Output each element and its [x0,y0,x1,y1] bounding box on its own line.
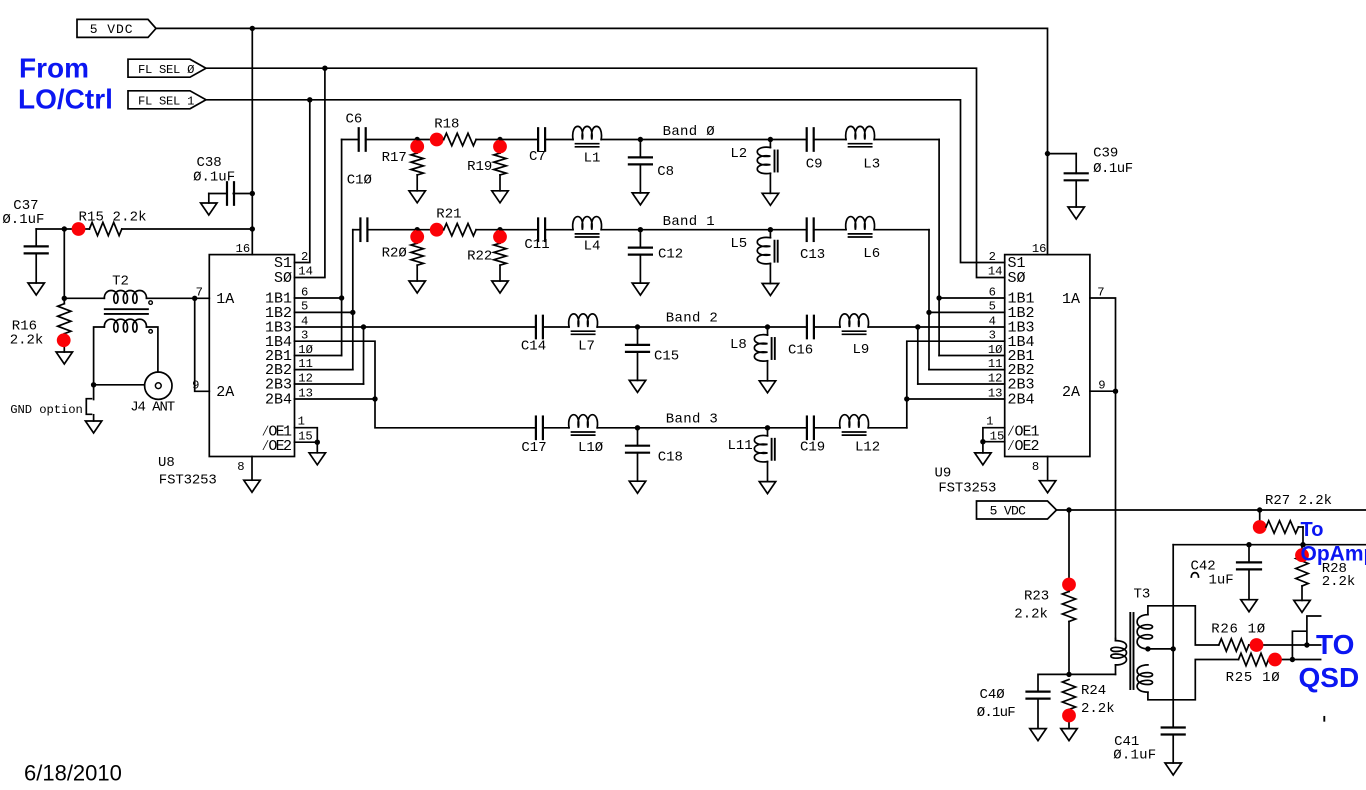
wire band3 left run [535,427,537,429]
capacitor C18 [626,428,649,481]
svg-text:SØ: SØ [274,270,292,287]
test point R28 top [1295,548,1309,562]
wire C6 to R17 [366,139,418,141]
wire C14 to L7 [543,326,569,328]
ground C42 [1241,600,1257,612]
label U8 FST3253 [159,472,217,488]
svg-text:1A: 1A [216,291,234,308]
svg-text:9: 9 [192,379,199,393]
ground L2 [762,193,778,205]
svg-text:2B4: 2B4 [1008,392,1035,409]
svg-text:1uF: 1uF [1209,573,1234,589]
svg-text:C16: C16 [788,343,813,359]
wire opamp row [1173,544,1366,546]
svg-text:14: 14 [988,265,1003,279]
label C6 [346,112,363,128]
wire R26 to QSD [1249,644,1321,646]
svg-text:R19: R19 [467,159,492,175]
svg-text:2.2k: 2.2k [1081,701,1115,717]
svg-text:Ø.1uF: Ø.1uF [2,212,44,228]
wire junction to L5 [640,229,770,231]
wire U8 OE1/OE2 gnd [295,428,318,443]
wire gnd option upper [93,385,95,400]
svg-text:L12: L12 [855,440,880,456]
U9 left pin numbers [986,250,1004,444]
junction R15/T2 branch [62,226,67,231]
wire T2 secondary right to J4 [147,327,158,372]
ground C8 [632,193,648,205]
net flag FL SEL 0 [128,59,206,77]
capacitor C11 [538,218,545,241]
label TO QSD [1299,629,1360,693]
wire U9 tie B0 vertical [938,140,940,356]
svg-text:C1Ø: C1Ø [347,173,372,189]
junction C15 tap [635,324,640,329]
resistor R26 10 [1211,621,1265,651]
label date [24,761,122,786]
wire C37 to R15 [36,228,89,230]
wire L7 to junction [597,326,637,328]
svg-text:L5: L5 [730,236,747,252]
label U8 [158,455,175,471]
wire T2 primary to U8 1A [147,297,210,299]
wire T2 secondary left down [94,327,105,385]
resistor R15 2.2k [79,210,147,236]
junction C39 tap [1045,151,1050,156]
transformer T3 primary winding [1111,639,1127,675]
U9 right pin numbers [1032,242,1106,474]
wire L3 to U9 [874,139,939,141]
svg-text:16: 16 [236,242,251,256]
wire U8 1B2-2B2 tie [295,311,353,313]
junction T3 center tap [1145,646,1150,651]
capacitor C14 [536,316,543,339]
capacitor C16 [807,316,814,339]
svg-text:Ø.1uF: Ø.1uF [1113,747,1156,763]
capacitor C42 [1191,545,1262,600]
wire C13 to L6 [814,229,846,231]
wire R17 to R18 [417,139,444,141]
ground GND option [85,421,101,433]
label Band 2 [666,311,718,327]
label T2 [112,274,129,290]
svg-text:FL SEL Ø: FL SEL Ø [138,63,194,77]
wire L11 to C19 [768,427,807,429]
svg-text:QSD: QSD [1299,662,1360,693]
wire U9 1B2-2B2 tie [929,311,1005,313]
svg-text:U8: U8 [158,455,175,471]
svg-text:From: From [19,53,89,84]
wire C16 to L9 [814,326,840,328]
junction L8 tap [765,324,770,329]
svg-text:Band Ø: Band Ø [663,124,715,140]
test point R25 right [1268,653,1282,667]
junction U8 band0 feed [339,295,344,300]
capacitor C7 [538,128,545,151]
wire 5VDC top rail [156,28,1048,254]
IC U9 body [1005,255,1090,457]
svg-text:Ø.1uF: Ø.1uF [1093,161,1133,177]
wire C9 to L3 [814,139,846,141]
wire R20 to R21 [417,229,444,231]
svg-text:L11: L11 [728,438,753,454]
ground U8 OE [309,453,325,465]
ground C12 [632,283,648,295]
svg-text:1A: 1A [1062,291,1080,308]
svg-text:C12: C12 [658,247,683,263]
wire U8 pin16 [251,229,253,255]
svg-text:Band 2: Band 2 [666,311,718,327]
wire R21 to R22 [476,229,500,231]
wire U8 band3 down [375,399,536,428]
svg-text:L3: L3 [863,156,880,172]
svg-text:C13: C13 [800,247,825,263]
net flag FL SEL 1 [128,91,206,109]
ground C39 [1068,207,1084,219]
label To OpAmp [1301,519,1366,566]
test point R20 [410,230,424,244]
svg-text:L2: L2 [730,146,747,162]
U8 right pin numbers [298,250,313,444]
junction U9 band2 in [915,324,920,329]
svg-text:Band 3: Band 3 [666,412,718,428]
power flag 5 VDC (bottom) [977,501,1057,519]
svg-text:T2: T2 [112,274,129,290]
svg-text:C7: C7 [529,149,546,165]
wire L1 to junction [601,139,640,141]
transformer T3 core [1130,613,1133,689]
ground U9 pin8 [1039,481,1055,493]
junction antenna / gnd option [91,382,96,387]
junction U9 band1 in [926,310,931,315]
svg-text:2A: 2A [1062,384,1080,401]
svg-text:8: 8 [237,460,244,474]
resistor R16 2.2k [10,298,71,352]
wire U9 tie B2 vertical [917,327,919,384]
wire branch down to T2 [63,229,65,298]
svg-text:L6: L6 [863,246,880,262]
inductor L2 [757,140,777,194]
wire 1A to 2A loop [195,298,210,391]
svg-text:15: 15 [298,429,313,443]
junction C8 tap [638,137,643,142]
wire U9 OE stub [982,442,984,453]
wire 5VDC branch down to U8 [251,28,253,229]
wire C10 to R20 [367,229,417,231]
wire down to R23 [1068,510,1070,592]
wire R15 to U8 pin16 rail [122,228,253,230]
wire U9 OE1/OE2 gnd [983,428,1005,442]
wire U8 pin8 [251,457,253,481]
svg-text:L8: L8 [730,337,747,353]
svg-text:∕OE2: ∕OE2 [261,438,292,455]
wire junction to C40 [1038,674,1069,691]
svg-text:C8: C8 [657,164,674,180]
wire C19 to L12 [814,427,840,429]
labels band0 components [382,117,881,181]
U8 pin names [216,255,292,455]
svg-text:OpAmp: OpAmp [1301,542,1366,565]
svg-text:J4 ANT: J4 ANT [130,399,175,415]
label T3 [1134,586,1151,602]
test point R19 [493,140,507,154]
resistor R17 [411,140,423,191]
svg-text:FL SEL 1: FL SEL 1 [138,95,194,109]
test point R23 top [1062,578,1076,592]
wire junction to T3 primary [1069,673,1116,675]
wire U9 tie B1 vertical [928,230,930,370]
wire U8 1B4 stub [295,341,376,399]
svg-text:T3: T3 [1134,586,1151,602]
wire R27 left lead [1259,510,1261,527]
junction R27 tap [1257,507,1262,512]
junction L2 tap [768,137,773,142]
labels band1 components [382,207,881,265]
wire FL SEL 1 net [206,100,1005,263]
svg-text:L1Ø: L1Ø [578,440,603,456]
wire C6 left [342,139,359,141]
resistor R25 10 [1226,653,1280,686]
inductor L3 [846,126,875,146]
test point R27 left [1253,520,1267,534]
junction C18 tap [635,425,640,430]
svg-text:2A: 2A [216,384,234,401]
svg-text:Ø.1uF: Ø.1uF [193,170,235,186]
capacitor C37 [2,198,47,283]
capacitor C41 [1113,728,1185,764]
wire L8 to C16 [768,326,807,328]
resistor R27 2.2k [1265,493,1332,545]
junction R19 tap [497,137,502,142]
svg-text:1: 1 [986,415,993,429]
capacitor C40 [977,687,1050,729]
wire T2 primary left [64,297,104,299]
svg-text:2.2k: 2.2k [10,333,44,349]
svg-text:14: 14 [298,265,313,279]
test point R21 left [430,223,444,237]
ground R20 [409,281,425,293]
wire L4 to junction [601,229,640,231]
inductor L11 [754,428,774,482]
junction C12 tap [638,227,643,232]
capacitor C6 [359,128,366,151]
junction C38 tap [250,191,255,196]
svg-text:C15: C15 [654,349,679,365]
wire L10 to junction [597,427,637,429]
junction U8 band1 feed [350,310,355,315]
wire U9 1B3-2B3 tie [918,326,1005,328]
svg-text:R22: R22 [467,249,492,265]
U8 left pin numbers [192,242,250,474]
wire U9 2A stub [1090,390,1116,392]
junction FL SEL 1 to U8 S1 [307,97,312,102]
label From LO/Ctrl [18,53,113,115]
svg-text:2: 2 [989,250,996,264]
wire FL SEL 0 to U8 pin14 [295,68,325,277]
resistor R21 [444,224,476,236]
junction R17 tap [415,137,420,142]
wire gnd option lower [93,415,95,421]
inductor L5 [757,230,777,284]
svg-text:1: 1 [298,415,305,429]
wire FL SEL 0 net [206,68,1005,277]
ground U8 pin8 [244,480,260,492]
wire QSD I stub [1307,616,1321,645]
svg-text:Ø.1uF: Ø.1uF [977,705,1016,721]
wire C38 to 5VDC rail [233,193,252,195]
svg-text:L1: L1 [584,150,601,166]
svg-text:C14: C14 [521,339,546,355]
stray mark [1323,717,1325,721]
wire QSD Q stub [1292,631,1306,659]
wire C10 left [353,229,361,231]
wire T3 sec top out [1148,606,1219,645]
wire FL SEL 1 to U8 pin2 [295,100,310,263]
ground C41 [1165,763,1181,775]
svg-text:C11: C11 [524,237,549,253]
wire C17 to L10 [543,427,569,429]
junction QSD I [1304,642,1309,647]
wire R19 to C7 [500,139,538,141]
capacitor C15 [626,327,649,380]
ground R19 [492,191,508,203]
junction T2 primary / R16 [62,296,67,301]
junction U9 band0 in [936,295,941,300]
capacitor C10 [360,218,367,241]
wire U8 2B1 stub [295,355,342,357]
inductor L6 [846,217,875,237]
wire U8 OE stub [316,442,318,453]
ground U9 OE [975,453,991,465]
ground R28 [1294,600,1310,612]
svg-text:2.2k: 2.2k [1322,574,1356,590]
wire junction to L8 [638,326,768,328]
test point R24 bottom [1062,709,1076,723]
wire L9 to U9 [868,326,918,328]
transformer T2 primary winding [104,291,152,305]
svg-text:L4: L4 [584,239,601,255]
test point R16 bottom [57,333,71,347]
svg-text:L7: L7 [578,339,595,355]
wire U9 2B3 stub [918,383,1005,385]
svg-text:R24: R24 [1081,683,1106,699]
wire 2A down to T3 [1115,391,1117,638]
ground C18 [629,481,645,493]
wire U9 1B1-2B1 tie [939,297,1005,299]
junction C42 tap [1246,542,1251,547]
resistor R19 [494,140,506,191]
svg-text:TO: TO [1316,629,1354,660]
gnd option jumper bracket [10,399,91,418]
junction R23/R24/C40/T3 [1066,672,1071,677]
resistor R23 2.2k [1014,589,1075,675]
ground L8 [759,381,775,393]
ground R16 [56,352,72,364]
junction U9 OE gnd [980,439,985,444]
test point R26 right [1250,638,1264,652]
svg-text:C18: C18 [658,449,683,465]
IC U8 body [209,255,294,457]
ground R17 [409,191,425,203]
wire T3 sec bottom out [1148,660,1239,700]
wire U9 pin8 [1047,457,1049,481]
svg-text:2.2k: 2.2k [1014,607,1048,623]
wire center tap vertical [1172,545,1174,728]
wire L5 to C13 [770,229,806,231]
svg-text:16: 16 [1032,242,1047,256]
junction R20 tap [415,227,420,232]
label Band 0 [663,124,715,140]
svg-text:C9: C9 [806,156,823,172]
svg-text:L9: L9 [853,342,870,358]
resistor R22 [494,230,506,281]
wire L6 to U9 [874,229,929,231]
label Band 1 [663,214,715,230]
svg-text:C17: C17 [521,440,546,456]
ground C37 [28,283,44,295]
inductor L10 [569,415,598,435]
inductor L4 [573,217,602,237]
wire to J4 center [94,384,145,386]
test point R15 left [72,222,86,236]
inductor L7 [569,314,598,334]
capacitor C19 [807,417,814,440]
ground R24 [1061,729,1077,741]
wire C11 to L4 [545,229,573,231]
junction U8 band2 feed [361,324,366,329]
junction 1A/2A tie [192,296,197,301]
inductor L1 [573,126,602,146]
svg-text:R25 1Ø: R25 1Ø [1226,670,1280,686]
wire junction to L11 [638,427,768,429]
junction R27 / opamp row [1300,542,1305,547]
junction R22 tap [497,227,502,232]
transformer T2 secondary winding [104,319,152,333]
junction 5VDC / U8 pin16 branch [250,26,255,31]
svg-text:SØ: SØ [1008,270,1026,287]
power flag 5 VDC (top) [77,19,156,37]
svg-text:Band 1: Band 1 [663,214,715,230]
junction FL SEL 0 to U8 S0 [322,66,327,71]
svg-text:FST3253: FST3253 [159,472,217,488]
junction R23 tap [1066,507,1071,512]
capacitor C39 [1048,146,1134,208]
wire U8 2B2 stub [295,369,353,371]
svg-text:2B4: 2B4 [265,392,292,409]
wire U8 tie B2 vertical [363,327,365,384]
labels band3 components [521,438,880,465]
svg-text:R21: R21 [436,207,461,223]
svg-text:C39: C39 [1093,146,1118,162]
resistor R28 2.2k [1296,545,1356,601]
svg-text:5 VDC: 5 VDC [90,22,133,37]
junction QSD Q [1290,657,1295,662]
test point R22 [493,230,507,244]
wire U8 2B3 stub [295,383,364,385]
transformer T3 secondary bottom [1137,665,1152,692]
svg-text:C6: C6 [346,112,363,128]
wire T3 center tap [1148,648,1173,650]
svg-text:R2Ø: R2Ø [382,246,407,262]
svg-text:U9: U9 [935,466,952,482]
svg-text:R23: R23 [1024,589,1049,605]
svg-text:GND option: GND option [10,403,83,417]
resistor R18 [444,133,476,145]
junction U9 band3 in [904,396,909,401]
test point R17 [410,140,424,154]
junction L11 tap [765,425,770,430]
wire L12 to U9 [868,427,907,429]
